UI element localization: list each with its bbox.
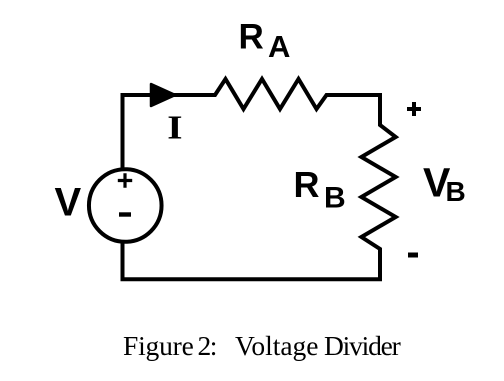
svg-text:B: B — [446, 176, 466, 207]
voltage source V1 circle — [89, 169, 162, 242]
svg-text:A: A — [268, 29, 290, 64]
wire loop with resistor zigzags — [123, 79, 396, 279]
minus sign inside source — [119, 212, 131, 216]
svg-text:R: R — [239, 18, 264, 57]
svg-text:V: V — [55, 181, 82, 225]
plus sign at VB top — [407, 102, 421, 116]
svg-text:R: R — [294, 164, 320, 205]
svg-text:B: B — [324, 182, 346, 215]
current arrow I — [151, 84, 175, 106]
minus sign at VB bottom — [408, 253, 418, 258]
caption — [0, 332, 504, 362]
svg-text:I: I — [167, 109, 182, 146]
plus sign inside source — [118, 173, 132, 187]
